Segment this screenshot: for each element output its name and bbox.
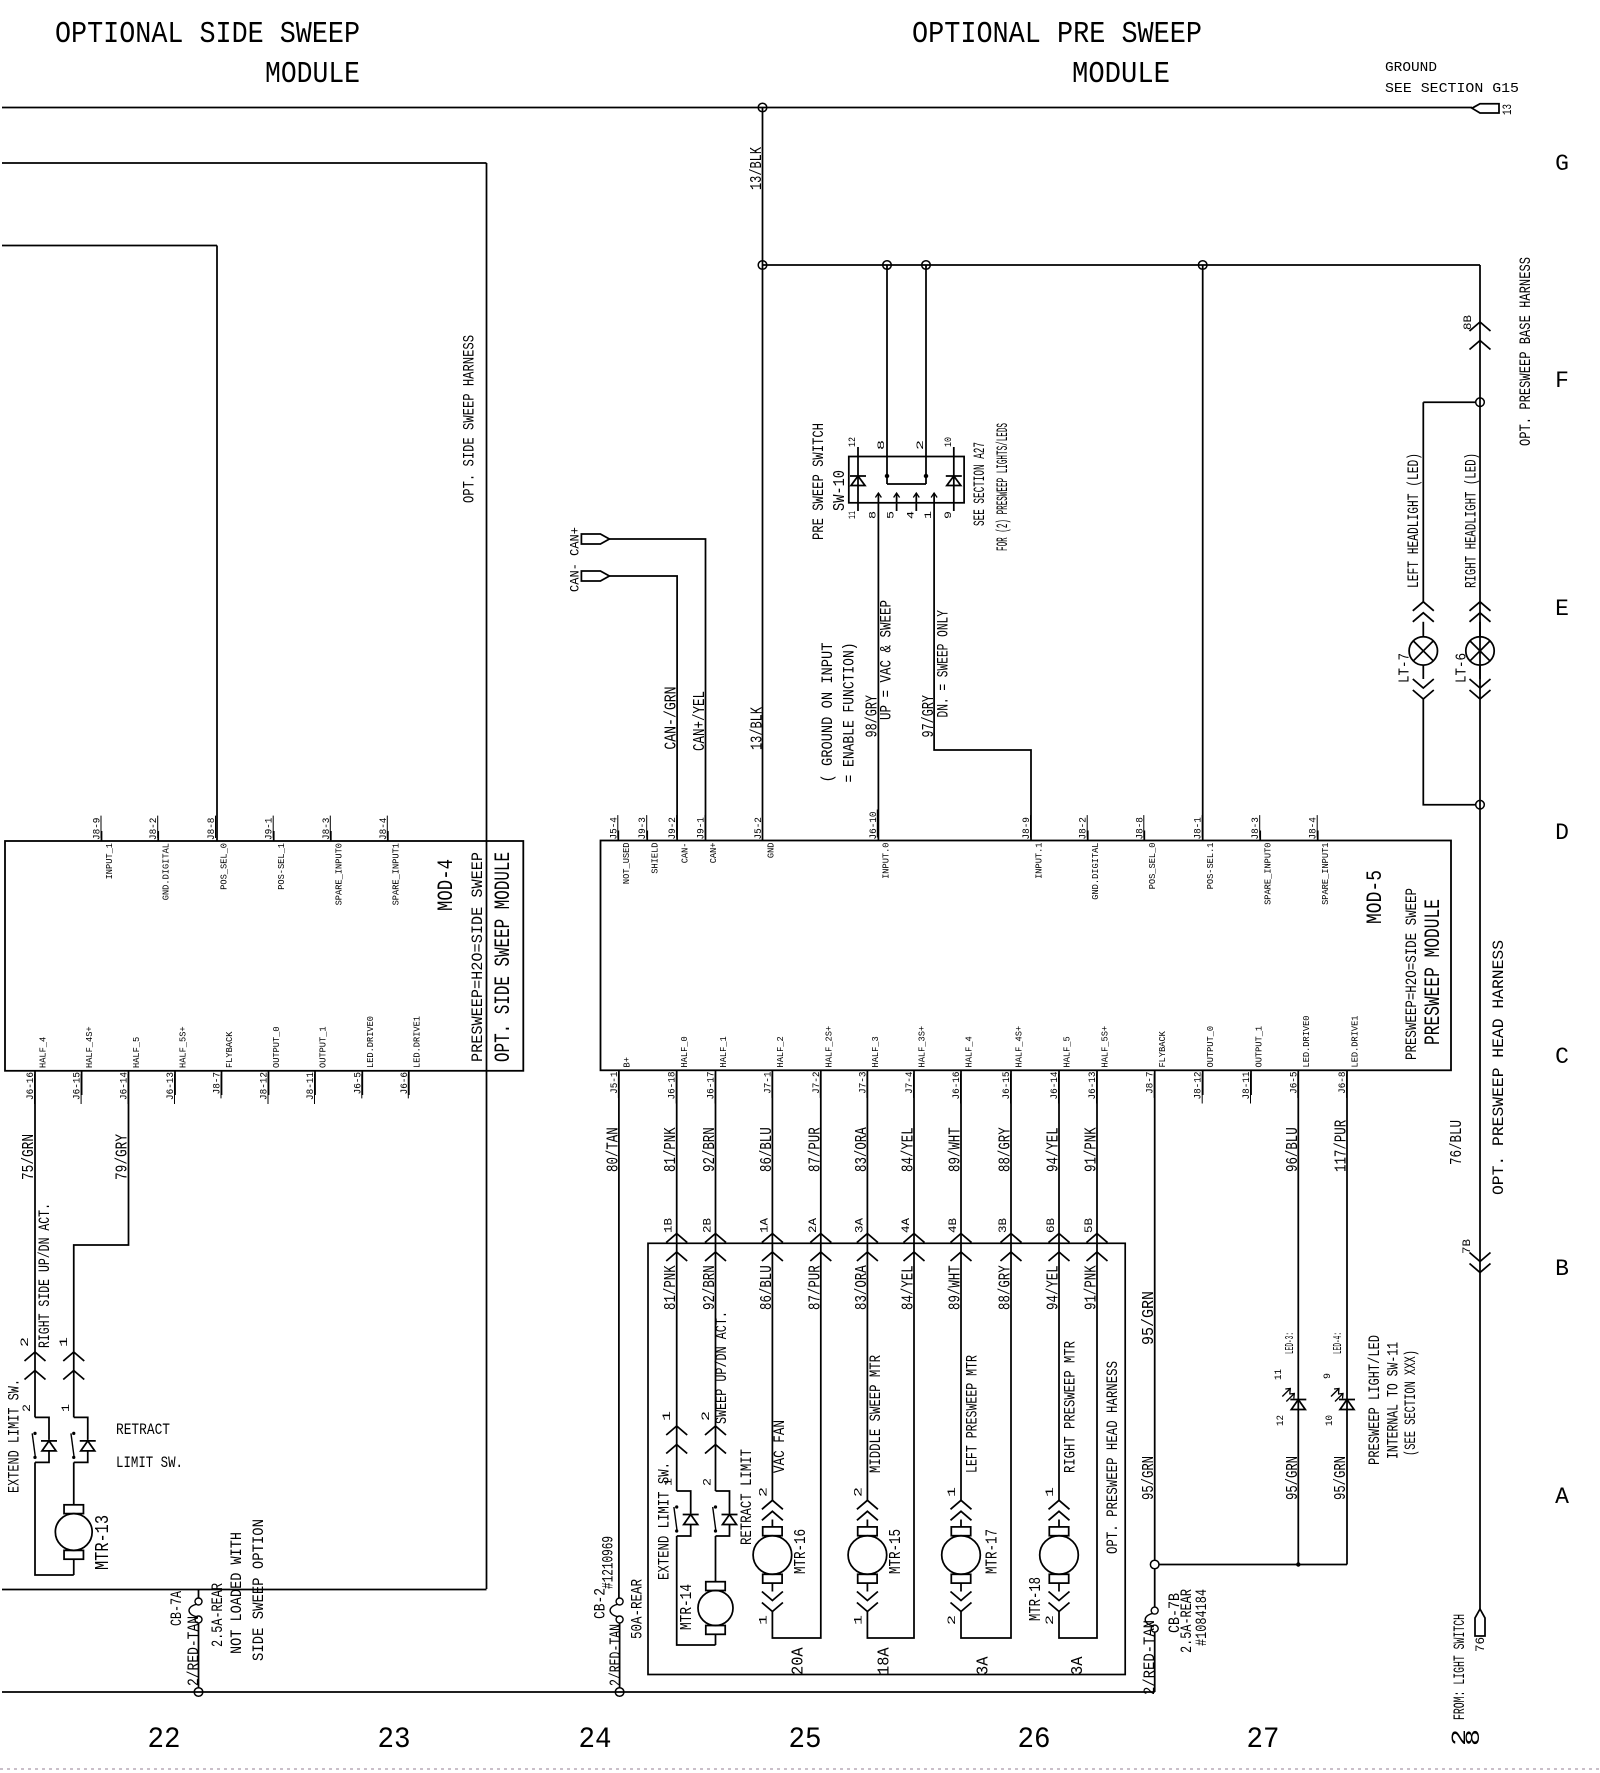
svg-text:8B: 8B	[1463, 315, 1475, 330]
svg-text:POS-SEL.1: POS-SEL.1	[1205, 842, 1216, 889]
wire drop x=820.8 into harness box	[820, 1070, 822, 1243]
svg-text:FLYBACK: FLYBACK	[1157, 1031, 1168, 1068]
harness box OPT. PRESWEEP HEAD HARNESS	[648, 1243, 1125, 1674]
MOD-4 bottom pin J8-11 OUTPUT_1	[314, 1071, 316, 1095]
connector chevrons 1A at harness box	[762, 1234, 783, 1243]
wire POS_SEL_0 vertical to MOD-4 J8-8	[216, 246, 218, 842]
wire MTR-13 bottom loop	[35, 1462, 74, 1575]
svg-text:PRESWEEP=H2O=SIDE SWEEP: PRESWEEP=H2O=SIDE SWEEP	[469, 852, 487, 1062]
svg-text:J8-9: J8-9	[93, 818, 104, 840]
svg-text:J6-6: J6-6	[400, 1072, 411, 1094]
motor MTR-17	[960, 1520, 962, 1528]
svg-text:HALF_0: HALF_0	[679, 1036, 690, 1067]
svg-text:2: 2	[758, 1487, 770, 1497]
svg-text:95/GRN: 95/GRN	[1140, 1456, 1159, 1500]
svg-text:HALF_4: HALF_4	[38, 1037, 49, 1068]
connector chevrons 8B	[1470, 322, 1491, 331]
svg-text:SIDE SWEEP OPTION: SIDE SWEEP OPTION	[250, 1519, 268, 1661]
wire SW-10 pin8 drop	[886, 265, 888, 476]
svg-text:OPT. SIDE SWEEP HARNESS: OPT. SIDE SWEEP HARNESS	[461, 335, 479, 503]
connector chevrons above LT-7	[1413, 602, 1434, 611]
switch SW-10 body	[849, 457, 964, 503]
MOD-5 top pin J5-4 NOT_USED	[617, 831, 619, 841]
svg-text:81/PNK: 81/PNK	[662, 1127, 681, 1172]
SW-10 diode right pins 10-9	[953, 447, 955, 457]
svg-text:J8-8: J8-8	[1135, 817, 1146, 839]
svg-text:80/TAN: 80/TAN	[604, 1127, 623, 1172]
junction LT-7 branch top	[1476, 398, 1485, 407]
svg-text:MIDDLE SWEEP MTR: MIDDLE SWEEP MTR	[867, 1355, 885, 1473]
SW-10 diode left pins 12-11	[857, 447, 859, 457]
motor MTR-15	[866, 1520, 868, 1528]
connector chevrons 4A at harness box	[904, 1234, 925, 1243]
wire drop x=1097 into harness box	[1096, 1070, 1098, 1243]
svg-text:13/BLK: 13/BLK	[748, 146, 767, 190]
svg-text:PRESWEEP MODULE: PRESWEEP MODULE	[1421, 899, 1446, 1045]
svg-text:SPARE_INPUT0: SPARE_INPUT0	[1263, 842, 1274, 905]
svg-text:(SEE SECTION XXX): (SEE SECTION XXX)	[1402, 1350, 1420, 1456]
connector chevrons below LT-7	[1422, 665, 1424, 679]
svg-text:MODULE: MODULE	[265, 57, 360, 92]
svg-text:MOD-4: MOD-4	[434, 859, 459, 911]
wire 97/GRY SW-10 pin1 to J8-9	[934, 503, 1031, 841]
wire MTR-17 left branch	[960, 1243, 962, 1500]
svg-text:117/PUR: 117/PUR	[1333, 1120, 1352, 1172]
svg-text:INTERNAL TO SW-11: INTERNAL TO SW-11	[1385, 1342, 1403, 1459]
svg-text:3A: 3A	[975, 1656, 994, 1675]
svg-text:RIGHT SIDE UP/DN ACT.: RIGHT SIDE UP/DN ACT.	[36, 1203, 54, 1348]
svg-text:MTR-13: MTR-13	[92, 1515, 114, 1570]
connector chevrons MTR-14 pin 1	[666, 1426, 687, 1435]
svg-text:3A: 3A	[854, 1218, 866, 1233]
svg-text:3A: 3A	[1069, 1656, 1088, 1675]
svg-text:MODULE: MODULE	[1072, 57, 1170, 92]
svg-text:( GROUND ON INPUT: ( GROUND ON INPUT	[819, 643, 837, 783]
svg-text:92/BRN: 92/BRN	[701, 1127, 720, 1172]
svg-text:4: 4	[906, 511, 917, 519]
svg-text:HALF_4: HALF_4	[964, 1036, 975, 1067]
svg-text:HALF_5S+: HALF_5S+	[178, 1026, 189, 1068]
wire MTR-16 left branch	[771, 1243, 773, 1500]
wire drop x=1011 into harness box	[1010, 1070, 1012, 1243]
svg-text:2: 2	[853, 1487, 865, 1497]
MOD-5 top pin J8-2 GND.DIGITAL	[1087, 831, 1089, 841]
svg-text:18A: 18A	[876, 1647, 895, 1675]
connector CAN- flag	[581, 571, 609, 581]
connector chevrons 7B	[1470, 1264, 1491, 1273]
SW-10 contact stub pin 5	[896, 493, 898, 503]
svg-text:2: 2	[947, 1615, 959, 1625]
svg-text:20A: 20A	[790, 1647, 809, 1675]
svg-text:SEE SECTION G15: SEE SECTION G15	[1385, 81, 1519, 97]
svg-text:J6-13: J6-13	[166, 1072, 177, 1100]
svg-text:9: 9	[944, 511, 955, 519]
svg-text:NOT LOADED WITH: NOT LOADED WITH	[228, 1532, 246, 1654]
wire drop x=715.5 into harness box	[715, 1070, 717, 1243]
wire MTR-15 bottom U	[867, 1243, 914, 1638]
svg-text:LED-4:: LED-4:	[1331, 1332, 1345, 1354]
wire LT-7 branch top	[1423, 401, 1475, 403]
MOD-4 bottom pin J6-6 LED.DRIVE1	[408, 1071, 410, 1095]
svg-text:87/PUR: 87/PUR	[806, 1127, 825, 1172]
svg-text:LIMIT SW.: LIMIT SW.	[116, 1454, 183, 1472]
junction bus/SW-10 pin 8 wire	[883, 261, 892, 270]
svg-text:J5-2: J5-2	[754, 817, 765, 839]
extend limit switch with bypass diode on 75/GRN	[35, 1417, 49, 1440]
MOD-4 bottom pin J8-12 OUTPUT_0	[268, 1071, 270, 1095]
svg-text:27: 27	[1247, 1723, 1280, 1757]
svg-text:LT-6: LT-6	[1454, 653, 1471, 683]
wire 81/PNK inside box	[676, 1243, 678, 1491]
junction 95/GRN / LED rail	[1150, 1560, 1159, 1569]
svg-text:94/YEL: 94/YEL	[1045, 1127, 1064, 1172]
svg-text:79/GRY: 79/GRY	[114, 1134, 133, 1180]
motor MTR-16	[771, 1520, 773, 1528]
svg-text:3B: 3B	[998, 1218, 1010, 1233]
svg-text:G: G	[1555, 151, 1569, 177]
MOD-4 bottom pin J6-5 LED.DRIVE0	[361, 1071, 363, 1095]
svg-text:J8-11: J8-11	[306, 1072, 317, 1100]
svg-text:1B: 1B	[664, 1218, 676, 1233]
svg-text:2: 2	[20, 1337, 32, 1347]
svg-text:RETRACT LIMIT: RETRACT LIMIT	[738, 1449, 756, 1545]
svg-text:8: 8	[877, 440, 888, 450]
svg-text:1: 1	[947, 1486, 959, 1497]
svg-text:HALF_2: HALF_2	[775, 1036, 786, 1067]
svg-text:INPUT.0: INPUT.0	[880, 842, 891, 879]
svg-text:1: 1	[662, 1410, 674, 1421]
junction LT-7 branch bottom	[1476, 800, 1485, 809]
MOD-5 top pin J8-3 SPARE_INPUT0	[1259, 831, 1261, 841]
svg-text:B: B	[1555, 1256, 1569, 1282]
svg-text:CAN- CAN+: CAN- CAN+	[568, 527, 583, 592]
svg-text:INPUT_1: INPUT_1	[104, 843, 115, 880]
connector chevrons MTR-17 top pin 1	[951, 1500, 972, 1509]
wire rail y=1589 not-loaded branch	[2, 1589, 487, 1591]
svg-text:13/BLK: 13/BLK	[749, 706, 768, 750]
wire drop x=1059 into harness box	[1058, 1070, 1060, 1243]
wire drop x=772.4 into harness box	[771, 1070, 773, 1243]
wire presweep bus y=265	[763, 264, 1481, 266]
svg-text:J9-3: J9-3	[638, 817, 649, 839]
svg-text:1: 1	[1045, 1486, 1057, 1497]
MOD-5 bottom pin J8-11 OUTPUT_1	[1250, 1070, 1252, 1095]
motor MTR-13	[73, 1462, 75, 1504]
connector CAN+ flag	[581, 534, 609, 544]
svg-text:12: 12	[848, 437, 859, 447]
svg-text:FROM: LIGHT SWITCH: FROM: LIGHT SWITCH	[1451, 1614, 1469, 1720]
wire MTR-18 bottom U	[1059, 1243, 1097, 1638]
svg-text:POS_SEL_0: POS_SEL_0	[219, 843, 230, 890]
svg-text:76/BLU: 76/BLU	[1448, 1120, 1467, 1165]
svg-text:J9-1: J9-1	[265, 818, 276, 840]
svg-text:8: 8	[1463, 1729, 1486, 1746]
wire 75/GRN from J6-16	[34, 1071, 36, 1418]
svg-text:76: 76	[1473, 1637, 1488, 1652]
svg-text:87/PUR: 87/PUR	[806, 1265, 825, 1310]
svg-text:OPTIONAL SIDE SWEEP: OPTIONAL SIDE SWEEP	[55, 17, 360, 52]
svg-text:SPARE_INPUT1: SPARE_INPUT1	[390, 843, 401, 906]
svg-text:2/RED-TAN: 2/RED-TAN	[185, 1616, 203, 1686]
connector chevrons wire 79/GRY pin 1	[63, 1352, 84, 1361]
lamp LT-6	[1479, 622, 1481, 637]
LED rail	[1159, 1564, 1347, 1566]
svg-text:7B: 7B	[1462, 1239, 1474, 1254]
svg-text:J6-15: J6-15	[73, 1072, 84, 1100]
bottom page edge dashes	[0, 1768, 1600, 1770]
svg-text:LED-3:: LED-3:	[1283, 1332, 1297, 1354]
svg-text:23: 23	[378, 1723, 411, 1757]
svg-text:88/GRY: 88/GRY	[997, 1265, 1016, 1310]
svg-text:DN. = SWEEP ONLY: DN. = SWEEP ONLY	[935, 610, 953, 718]
svg-text:50A-REAR: 50A-REAR	[629, 1579, 647, 1639]
svg-text:24: 24	[579, 1723, 612, 1757]
ground flag connector 13	[1472, 104, 1499, 113]
wire CAN- to J9-2	[609, 576, 677, 841]
svg-text:LEFT HEADLIGHT (LED): LEFT HEADLIGHT (LED)	[1405, 453, 1423, 588]
junction CB-2 / rail	[615, 1688, 624, 1697]
wire MTR-18 left branch	[1058, 1243, 1060, 1500]
breaker CB-7A	[198, 1590, 200, 1599]
wire 98/GRY SW-10 pin8 to J6-10	[877, 503, 879, 841]
svg-text:PRESWEEP LIGHT/LED: PRESWEEP LIGHT/LED	[1366, 1335, 1384, 1465]
svg-text:J8-1: J8-1	[1194, 817, 1205, 839]
svg-text:HALF_2S+: HALF_2S+	[823, 1026, 834, 1068]
connector chevrons MTR-18 top pin 1	[1049, 1500, 1070, 1509]
connector chevrons MTR-17 bottom pin 2	[951, 1603, 972, 1612]
svg-text:75/GRN: 75/GRN	[20, 1134, 39, 1180]
lamp LT-7	[1422, 622, 1424, 637]
svg-text:GND: GND	[766, 842, 777, 858]
svg-text:J8-4: J8-4	[379, 818, 390, 840]
svg-text:2: 2	[22, 1404, 34, 1412]
junction on ground bus at 13/BLK drop	[758, 103, 767, 112]
svg-text:11: 11	[1274, 1369, 1285, 1380]
svg-text:CAN-/GRN: CAN-/GRN	[662, 687, 681, 750]
svg-text:25: 25	[789, 1723, 822, 1757]
svg-text:J6-10: J6-10	[869, 812, 880, 840]
connector chevrons above LT-6	[1470, 602, 1491, 611]
svg-text:4A: 4A	[901, 1218, 913, 1233]
svg-text:95/GRN: 95/GRN	[1332, 1456, 1351, 1500]
MOD-4 top pin J9-1 POS-SEL_1	[273, 831, 275, 841]
svg-text:MTR-16: MTR-16	[792, 1529, 811, 1574]
SW-10 internal common bar	[885, 474, 889, 478]
svg-text:SEE SECTION A27: SEE SECTION A27	[971, 442, 989, 526]
svg-text:1: 1	[853, 1614, 865, 1625]
wire 96/BLU LED-3	[1297, 1070, 1299, 1564]
connector chevrons MTR-16 top pin 2	[762, 1500, 783, 1509]
SW-10 contact stub pin 1	[933, 493, 935, 503]
svg-text:PRESWEEP=H2O=SIDE SWEEP: PRESWEEP=H2O=SIDE SWEEP	[1403, 888, 1421, 1060]
wire POS_SEL_0 line y=245	[2, 245, 217, 247]
junction bus/13BLK	[758, 261, 767, 270]
svg-text:84/YEL: 84/YEL	[900, 1265, 919, 1310]
svg-text:= ENABLE FUNCTION): = ENABLE FUNCTION)	[841, 643, 859, 783]
LED LED-4	[1339, 1399, 1355, 1401]
connector chevrons MTR-18 bottom pin 2	[1049, 1603, 1070, 1612]
svg-text:F: F	[1555, 368, 1569, 394]
svg-text:2: 2	[1045, 1615, 1057, 1625]
svg-text:INPUT.1: INPUT.1	[1034, 842, 1045, 879]
connector chevrons 5B at harness box	[1087, 1234, 1108, 1243]
MOD-5 bottom pin J8-12 OUTPUT_0	[1202, 1070, 1204, 1095]
svg-text:SPARE_INPUT0: SPARE_INPUT0	[333, 843, 344, 906]
MOD-4 bottom pin J6-13 HALF_5S+	[174, 1071, 176, 1095]
svg-text:1A: 1A	[759, 1218, 771, 1233]
svg-text:OUTPUT_1: OUTPUT_1	[1254, 1026, 1265, 1068]
svg-text:2A: 2A	[808, 1218, 820, 1233]
svg-text:J9-2: J9-2	[668, 817, 679, 839]
svg-text:89/WHT: 89/WHT	[947, 1265, 966, 1310]
svg-text:11: 11	[848, 511, 859, 519]
svg-text:E: E	[1555, 596, 1569, 622]
svg-text:81/PNK: 81/PNK	[662, 1265, 681, 1310]
MOD-4 top pin J8-9 INPUT_1	[101, 831, 103, 841]
svg-text:#1084184: #1084184	[1193, 1589, 1211, 1646]
svg-text:2: 2	[701, 1411, 713, 1421]
svg-text:2B: 2B	[703, 1218, 715, 1233]
wire side sweep harness vertical x=486	[486, 163, 488, 1589]
wire drop x=867.4 into harness box	[866, 1070, 868, 1243]
svg-text:26: 26	[1018, 1723, 1051, 1757]
svg-text:GROUND: GROUND	[1385, 60, 1437, 76]
svg-text:J8-2: J8-2	[1079, 817, 1090, 839]
svg-text:VAC FAN: VAC FAN	[771, 1420, 789, 1473]
svg-text:LED.DRIVE1: LED.DRIVE1	[411, 1016, 422, 1068]
svg-text:FLYBACK: FLYBACK	[224, 1031, 235, 1068]
svg-text:OPT. PRESWEEP HEAD HARNESS: OPT. PRESWEEP HEAD HARNESS	[1490, 940, 1508, 1195]
svg-text:12: 12	[1276, 1415, 1287, 1426]
svg-text:J8-7: J8-7	[213, 1072, 224, 1094]
svg-text:86/BLU: 86/BLU	[758, 1127, 777, 1172]
svg-text:5: 5	[887, 511, 898, 519]
wire J8-1 POS-SEL.1 drop	[1202, 265, 1204, 841]
svg-text:9: 9	[1323, 1373, 1334, 1379]
extend limit switch bypass diode on 81/PNK	[677, 1491, 691, 1514]
svg-text:83/ORA: 83/ORA	[853, 1265, 872, 1310]
wire 79/GRY from J6-14	[74, 1071, 129, 1418]
svg-text:MTR-14: MTR-14	[678, 1584, 697, 1630]
svg-text:C: C	[1555, 1044, 1569, 1070]
module MOD-5 box	[601, 841, 1452, 1071]
MOD-5 top pin J9-3 SHIELD	[646, 831, 648, 841]
svg-text:LED.DRIVE1: LED.DRIVE1	[1350, 1015, 1361, 1067]
svg-text:1: 1	[758, 1614, 770, 1625]
svg-text:B+: B+	[621, 1057, 632, 1068]
SW-10 contact stub pin 4	[915, 493, 917, 503]
svg-text:10: 10	[1325, 1415, 1336, 1426]
svg-text:5B: 5B	[1084, 1218, 1096, 1233]
wire 80/TAN to CB-2	[618, 1070, 620, 1598]
svg-text:J8-12: J8-12	[260, 1072, 271, 1100]
svg-text:MTR-17: MTR-17	[984, 1529, 1003, 1574]
svg-text:SW-10: SW-10	[831, 470, 850, 511]
svg-text:LEFT PRESWEEP MTR: LEFT PRESWEEP MTR	[964, 1355, 982, 1473]
breaker CB-2	[616, 1598, 623, 1605]
connector chevrons MTR-15 bottom pin 1	[857, 1603, 878, 1612]
svg-text:OPTIONAL PRE SWEEP: OPTIONAL PRE SWEEP	[912, 17, 1202, 52]
wire drop x=676.7 into harness box	[676, 1070, 678, 1243]
svg-text:EXTEND LIMIT SW.: EXTEND LIMIT SW.	[6, 1379, 24, 1493]
connector chevrons 4B at harness box	[951, 1234, 972, 1243]
svg-text:6B: 6B	[1046, 1218, 1058, 1233]
connector chevrons 3B at harness box	[1001, 1234, 1022, 1243]
retract limit switch bypass diode on 92/BRN	[716, 1491, 730, 1514]
connector chevrons MTR-14 pin 2	[705, 1426, 726, 1435]
svg-text:86/BLU: 86/BLU	[758, 1265, 777, 1310]
svg-text:CAN+/YEL: CAN+/YEL	[691, 691, 710, 751]
svg-text:89/WHT: 89/WHT	[947, 1127, 966, 1172]
svg-text:SHIELD: SHIELD	[650, 842, 661, 873]
svg-text:CB-7A: CB-7A	[168, 1591, 186, 1626]
svg-text:D: D	[1555, 820, 1569, 846]
connector chevrons 3A at harness box	[857, 1234, 878, 1243]
svg-text:2/RED-TAN: 2/RED-TAN	[1141, 1620, 1159, 1695]
svg-text:HALF_1: HALF_1	[718, 1036, 729, 1067]
svg-text:RIGHT HEADLIGHT (LED): RIGHT HEADLIGHT (LED)	[1463, 453, 1481, 588]
svg-text:CB-2: CB-2	[592, 1588, 610, 1619]
wire right vertical 76/BLU x=1480	[1479, 265, 1481, 1609]
motor MTR-18	[1058, 1520, 1060, 1528]
svg-text:HALF_5: HALF_5	[1062, 1036, 1073, 1067]
svg-text:1: 1	[61, 1404, 73, 1412]
svg-text:91/PNK: 91/PNK	[1083, 1127, 1102, 1172]
SW-10 contact stub pin 8	[877, 493, 879, 503]
svg-text:PRE SWEEP SWITCH: PRE SWEEP SWITCH	[810, 423, 828, 540]
wire MTR-14 bottom loop	[715, 1634, 717, 1645]
junction bus/J8-1 wire	[1198, 261, 1207, 270]
svg-text:#1210969: #1210969	[600, 1536, 618, 1589]
svg-text:OPT. PRESWEEP HEAD HARNESS: OPT. PRESWEEP HEAD HARNESS	[1104, 1361, 1122, 1554]
wire LT-7 branch bottom	[1423, 699, 1475, 805]
svg-text:4B: 4B	[948, 1218, 960, 1233]
junction dot LED-3 wire	[1296, 1562, 1300, 1566]
connector chevrons 1B at harness box	[666, 1234, 687, 1243]
wire 13/BLK vertical drop to MOD-5 GND	[762, 108, 764, 841]
MOD-4 top pin J8-2 GND.DIGITAL	[157, 831, 159, 841]
wire 92/BRN inside box	[715, 1243, 717, 1491]
wire CAN+ to J9-1	[609, 539, 705, 841]
svg-text:J6-5: J6-5	[353, 1072, 364, 1094]
MOD-5 top pin J8-8 POS_SEL_0	[1143, 831, 1145, 841]
svg-text:95/GRN: 95/GRN	[1284, 1456, 1303, 1500]
svg-text:MOD-5: MOD-5	[1363, 870, 1388, 924]
retract limit switch with bypass diode on 79/GRY	[74, 1417, 88, 1440]
svg-text:13: 13	[1500, 104, 1515, 115]
svg-text:OPT. SIDE SWEEP MODULE: OPT. SIDE SWEEP MODULE	[491, 852, 516, 1062]
svg-text:OUTPUT_0: OUTPUT_0	[271, 1026, 282, 1068]
svg-text:MTR-18: MTR-18	[1027, 1577, 1046, 1621]
connector chevrons 2A at harness box	[810, 1234, 831, 1243]
svg-text:84/YEL: 84/YEL	[900, 1127, 919, 1172]
svg-text:J8-3: J8-3	[322, 818, 333, 840]
svg-text:LED.DRIVE0: LED.DRIVE0	[365, 1016, 376, 1068]
wire ground bus 13/BLK top	[2, 107, 1472, 109]
svg-text:CAN+: CAN+	[708, 842, 719, 863]
wire upper harness line y=163	[2, 162, 487, 164]
svg-text:POS-SEL_1: POS-SEL_1	[276, 843, 287, 890]
svg-text:OUTPUT_0: OUTPUT_0	[1205, 1026, 1216, 1068]
svg-text:HALF_5S+: HALF_5S+	[1100, 1026, 1111, 1068]
svg-text:HALF_5: HALF_5	[131, 1037, 142, 1068]
connector chevrons MTR-15 top pin 2	[857, 1500, 878, 1509]
svg-text:OUTPUT_1: OUTPUT_1	[318, 1026, 329, 1068]
connector flag 76 from light switch	[1475, 1609, 1485, 1636]
svg-text:LT-7: LT-7	[1397, 653, 1414, 683]
svg-text:J8-4: J8-4	[1309, 817, 1320, 839]
connector chevrons MTR-16 bottom pin 1	[762, 1603, 783, 1612]
